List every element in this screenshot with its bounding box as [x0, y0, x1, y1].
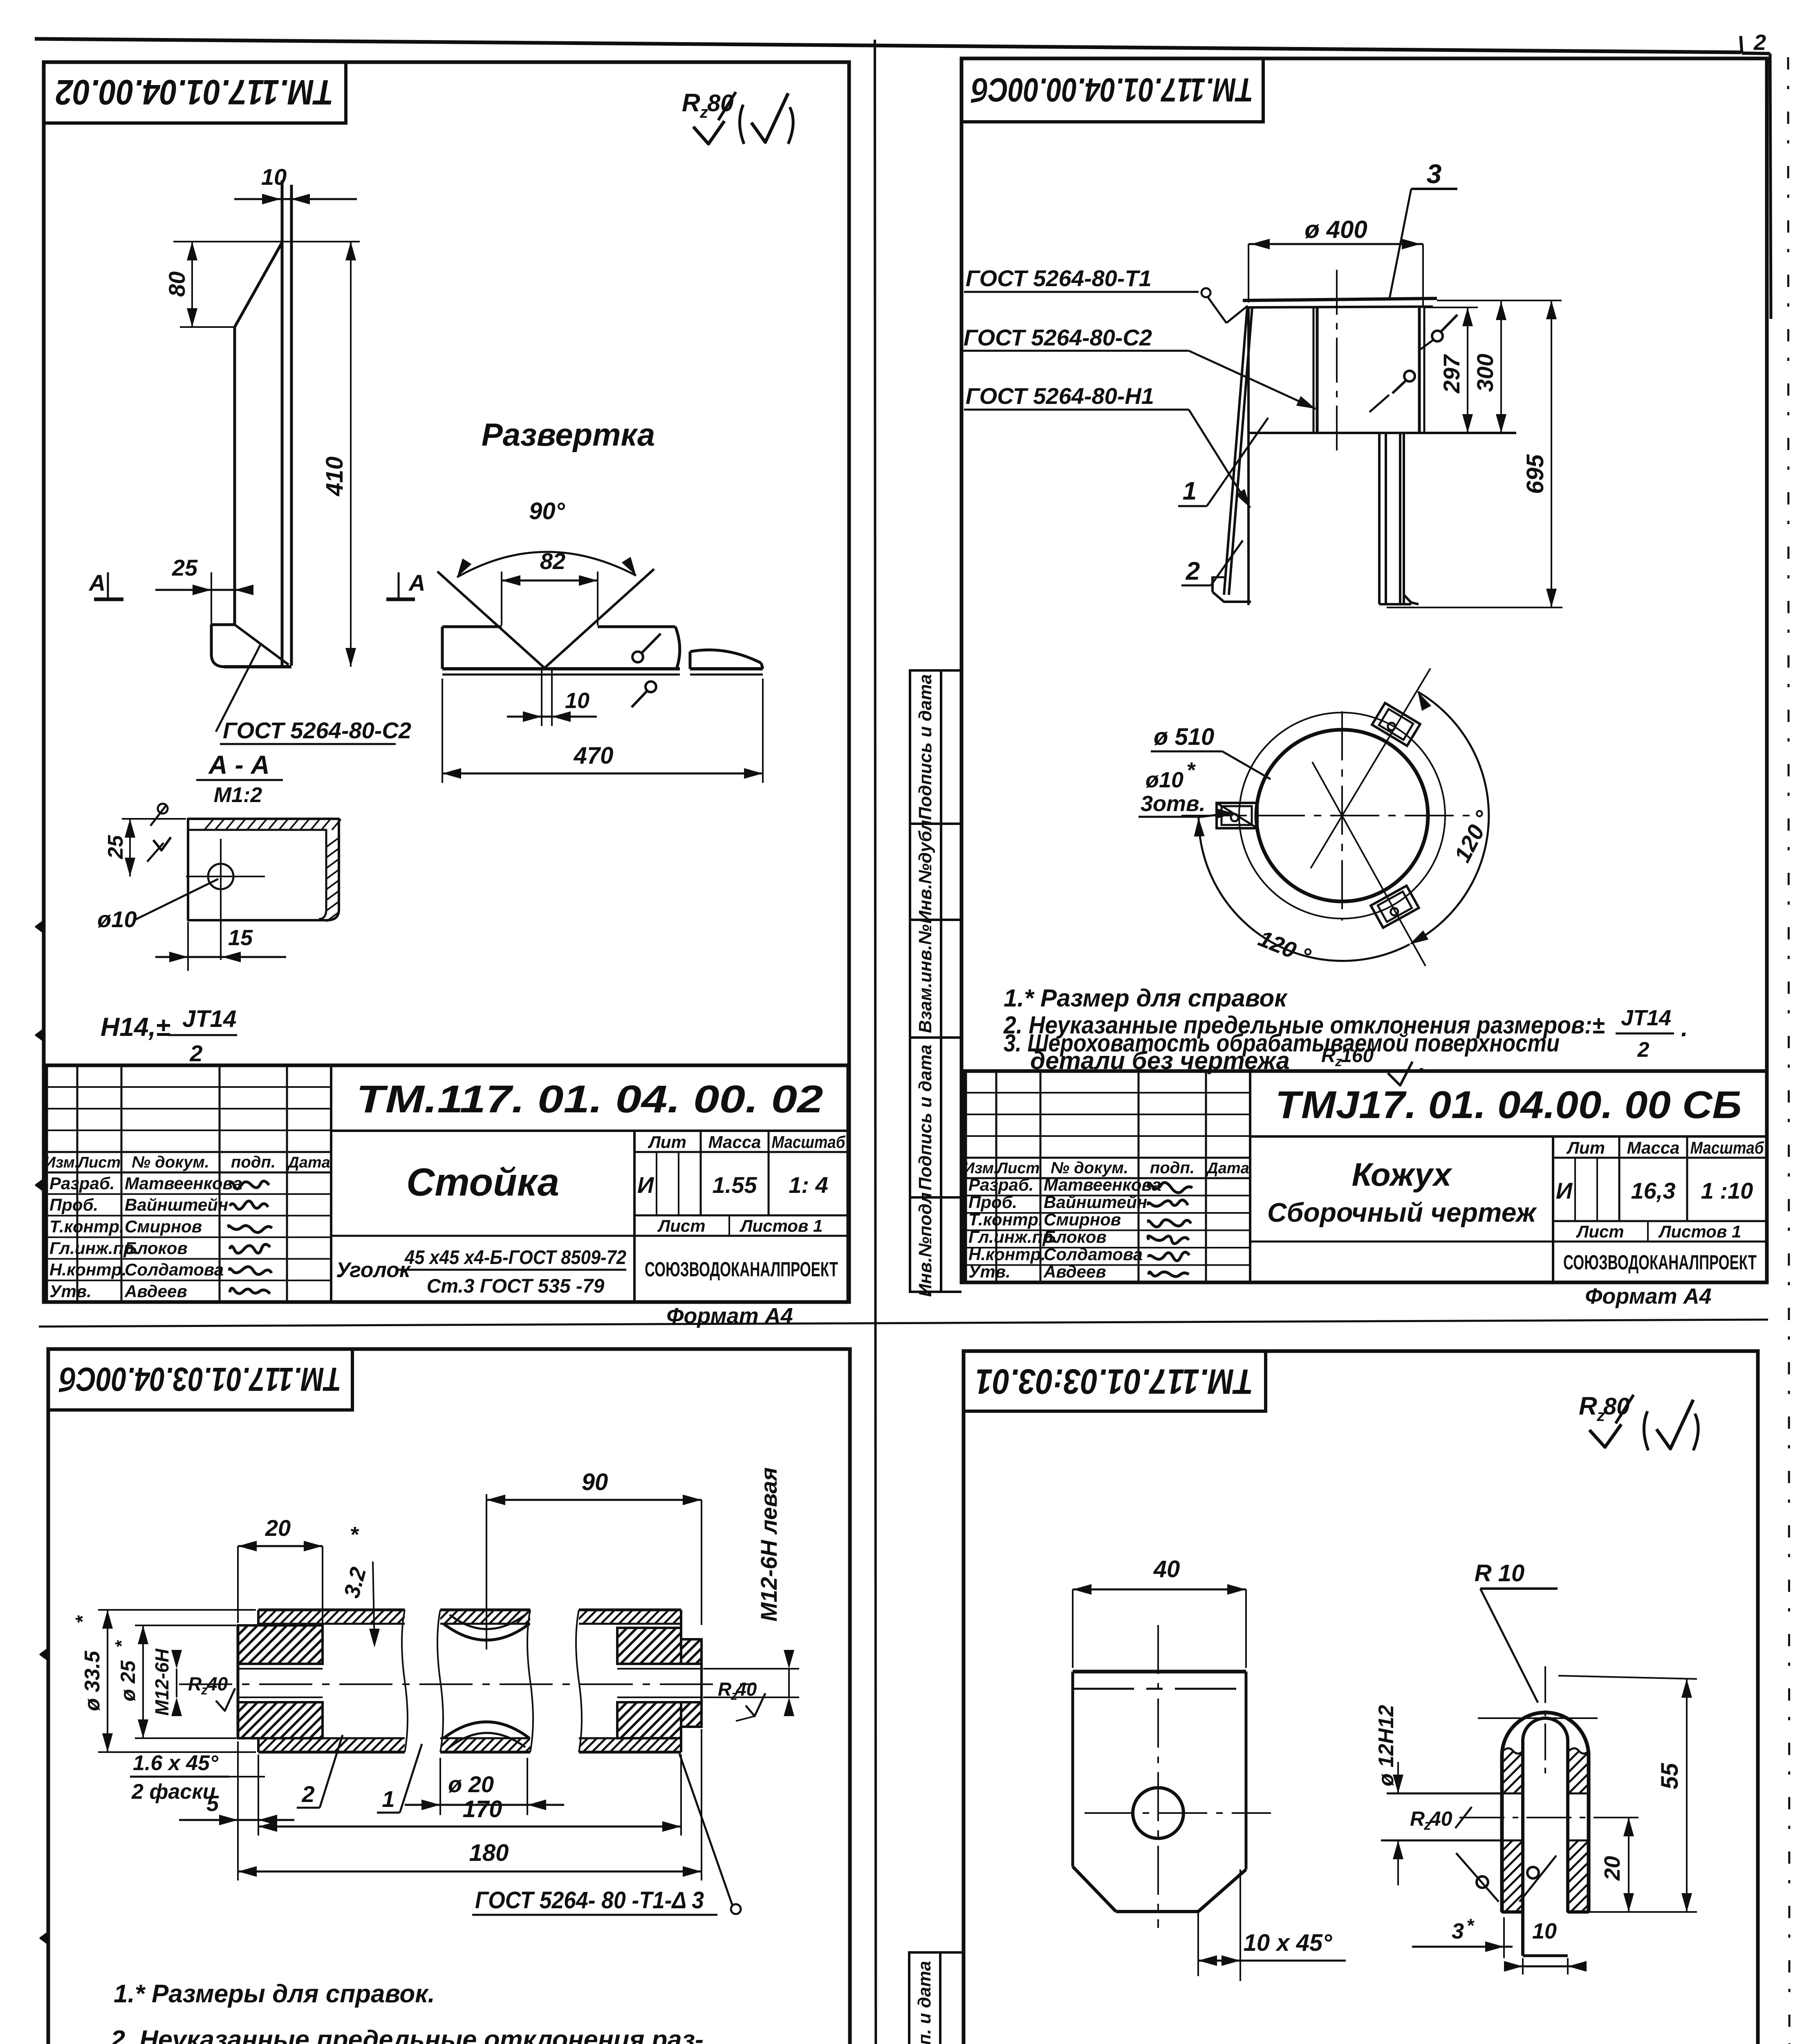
svg-text:Н.контр.: Н.контр. — [49, 1260, 127, 1279]
page number box tick — [1741, 36, 1742, 54]
svg-text:ø 12Н12: ø 12Н12 — [1374, 1705, 1398, 1786]
svg-text:Утв.: Утв. — [968, 1262, 1011, 1281]
svg-text:ТМ.117.01.04.00.02: ТМ.117.01.04.00.02 — [56, 72, 334, 112]
BL right bushing upper block — [617, 1628, 681, 1664]
BL waist center vertical line — [486, 1494, 487, 1650]
TL section A-A right band hatch — [326, 838, 338, 847]
svg-text:СОЮЗВОДОКАНАЛПРОЕКТ: СОЮЗВОДОКАНАЛПРОЕКТ — [645, 1258, 838, 1281]
svg-text:Формат А4: Формат А4 — [666, 1304, 793, 1328]
TR right leg lines — [1378, 433, 1381, 604]
svg-text:Блоков: Блоков — [1044, 1227, 1107, 1246]
TR dim arc 120 bottom — [1199, 818, 1410, 961]
BR fork hatch upper right — [1568, 1748, 1589, 1793]
svg-text:55: 55 — [1656, 1763, 1683, 1789]
svg-text:10 х 45°: 10 х 45° — [1244, 1930, 1333, 1956]
svg-text:3: 3 — [1427, 159, 1442, 189]
title block TR outer frame — [965, 1071, 1767, 1282]
svg-text:Смирнов: Смирнов — [125, 1217, 202, 1236]
svg-text:Солдатова: Солдатова — [125, 1260, 224, 1279]
BR bracketed check mark — [1644, 1411, 1648, 1450]
svg-text:Вайнштейн: Вайнштейн — [125, 1195, 228, 1215]
stamp box BL inverted doc number — [48, 1349, 352, 1410]
svg-text:ГОСТ 5264- 80 -Т1-Δ 3: ГОСТ 5264- 80 -Т1-Δ 3 — [475, 1887, 704, 1914]
sheet top edge right segment — [1742, 53, 1770, 54]
TL razvertka weld symbol lower — [646, 681, 656, 692]
TR left leg front edge vertical — [1247, 307, 1250, 605]
TL razvertka V notch lines — [437, 572, 545, 668]
svg-text:ø 510: ø 510 — [1154, 724, 1214, 750]
svg-text:Изм.: Изм. — [964, 1160, 998, 1177]
TR right leg foot — [1404, 595, 1419, 604]
svg-text:Авдеев: Авдеев — [124, 1282, 187, 1301]
svg-text:Инв.№дубл: Инв.№дубл — [915, 820, 935, 924]
TR circle outer thin — [1239, 713, 1445, 919]
TR lug top-right — [1372, 703, 1420, 746]
TR lug centerline upper right — [1311, 668, 1430, 868]
svg-text:2: 2 — [1753, 30, 1766, 55]
TR left bracket profile — [1224, 307, 1247, 595]
svg-text:Лист: Лист — [657, 1216, 705, 1235]
svg-text:ЈТ14: ЈТ14 — [1621, 1006, 1671, 1030]
svg-text:Подпись и дата: Подпись и дата — [915, 674, 935, 820]
TR cylinder right wall — [1418, 307, 1421, 433]
svg-text:ТМ.117.01.03:03.01: ТМ.117.01.03:03.01 — [975, 1362, 1253, 1401]
svg-text:82: 82 — [540, 548, 565, 574]
svg-text:*: * — [112, 1640, 132, 1648]
TR dim 300 — [1500, 301, 1502, 433]
BR fork outer U — [1502, 1712, 1589, 1912]
title block TL left column verticals — [76, 1065, 78, 1302]
svg-text:Формат А4: Формат А4 — [1585, 1284, 1711, 1309]
BL left frame tick marks — [40, 1649, 48, 1660]
TL razvertka right tab piece — [690, 650, 761, 663]
svg-text:Солдатова: Солдатова — [1044, 1245, 1143, 1264]
svg-text:1.* Размер для справок: 1.* Размер для справок — [1004, 984, 1288, 1012]
BL middle waist curves bottom — [444, 1722, 529, 1738]
TR center line vertical — [1336, 270, 1338, 452]
svg-text:Дата: Дата — [287, 1154, 330, 1171]
frame TL quadrant (Stoika) — [44, 62, 849, 1302]
svg-text:Листов 1: Листов 1 — [1658, 1222, 1742, 1241]
svg-text:410: 410 — [321, 457, 348, 497]
BR dim 20 — [1628, 1818, 1629, 1912]
BR plate bottom chamfers — [1073, 1867, 1116, 1912]
svg-text:40: 40 — [1429, 1807, 1452, 1830]
svg-text:2 фаски: 2 фаски — [131, 1780, 215, 1804]
svg-text:Проб.: Проб. — [49, 1195, 98, 1215]
svg-text:45 х45 х4-Б-ГОСТ 8509-72: 45 х45 х4-Б-ГОСТ 8509-72 — [404, 1247, 626, 1269]
svg-text:1.55: 1.55 — [713, 1172, 758, 1198]
svg-text:Лист: Лист — [1576, 1222, 1624, 1241]
TL dim 80 — [180, 326, 235, 328]
svg-text:Н.контр.: Н.контр. — [968, 1245, 1046, 1264]
title block TR lit-massa-masshtab header — [1553, 1157, 1767, 1159]
svg-text:Масса: Масса — [708, 1132, 761, 1152]
svg-text:ø10: ø10 — [1145, 768, 1183, 792]
TL section A-A top band hatch — [204, 819, 213, 830]
BL left bushing bore lines — [238, 1668, 323, 1670]
svg-text:25: 25 — [172, 555, 198, 580]
svg-text:1: 1 — [1183, 477, 1197, 505]
TR cylinder bottom line — [1248, 432, 1516, 434]
title block TR thin revision rows — [965, 1092, 1250, 1094]
TL section hole circle d10 — [208, 864, 233, 889]
BL right bushing lower block — [617, 1702, 681, 1738]
svg-text:Разраб.: Разраб. — [968, 1175, 1034, 1195]
title block TR material cell — [1250, 1241, 1553, 1243]
svg-text:Подпись и дата: Подпись и дата — [915, 1044, 935, 1190]
svg-text:подп.: подп. — [231, 1153, 276, 1171]
TL bracketed check mark — [740, 105, 744, 144]
svg-text:160: 160 — [1341, 1045, 1374, 1067]
center column divider line — [875, 40, 876, 2044]
svg-text:10: 10 — [565, 688, 589, 713]
TR left bracket foot — [1211, 576, 1214, 592]
svg-text:Масштаб: Масштаб — [1690, 1138, 1764, 1157]
TR weld symbol upper — [1432, 331, 1443, 341]
svg-text:ø 25: ø 25 — [117, 1660, 139, 1701]
BL dim phi33.5 — [98, 1609, 256, 1611]
TL stoika left edge — [233, 327, 236, 625]
svg-text:ø10: ø10 — [97, 906, 137, 932]
TL stoika profile top vertex and strip — [281, 180, 284, 666]
svg-text:R: R — [718, 1679, 731, 1700]
BR fork hatch lower right — [1568, 1840, 1589, 1912]
BL dim 20 left — [238, 1545, 323, 1547]
svg-text:R: R — [1410, 1807, 1425, 1830]
svg-text:ТМ.117. 01. 04. 00. 02: ТМ.117. 01. 04. 00. 02 — [356, 1078, 823, 1121]
svg-text:170: 170 — [463, 1796, 502, 1822]
svg-text:М1:2: М1:2 — [214, 783, 262, 807]
sheet top edge line — [35, 39, 1741, 52]
svg-text:R 10: R 10 — [1475, 1560, 1525, 1587]
svg-text:5: 5 — [206, 1791, 219, 1816]
svg-text:И: И — [1556, 1178, 1573, 1204]
BR hole centerline — [1459, 1817, 1644, 1818]
BR weld symbols bottom — [1477, 1876, 1488, 1888]
BL break wavy lines — [402, 1610, 408, 1752]
svg-text:16,3: 16,3 — [1631, 1178, 1676, 1204]
svg-text:подп.: подп. — [1150, 1159, 1195, 1177]
TR dim arc 120 right — [1411, 692, 1489, 944]
svg-text:Взам.инв.№: Взам.инв.№ — [915, 924, 935, 1033]
svg-text:ø 33.5: ø 33.5 — [81, 1650, 104, 1711]
svg-text:ø 20: ø 20 — [448, 1771, 494, 1797]
svg-text:ТМ.117.01.04.00.00Сб: ТМ.117.01.04.00.00Сб — [970, 71, 1253, 108]
svg-text:Кожух: Кожух — [1352, 1156, 1453, 1193]
svg-text:2: 2 — [189, 1040, 202, 1066]
svg-text:180: 180 — [469, 1840, 509, 1866]
BL tube right end verticals — [680, 1610, 682, 1628]
svg-text:80: 80 — [164, 271, 190, 297]
svg-text:Вайнштейн: Вайнштейн — [1044, 1192, 1147, 1212]
frame TR quadrant (Kozhukh) — [962, 58, 1767, 1282]
title block TR left column verticals — [995, 1071, 997, 1282]
svg-text:*: * — [1466, 1915, 1475, 1936]
TL section A-A inner thickness lines — [188, 830, 326, 919]
svg-text:ГОСТ 5264-80-С2: ГОСТ 5264-80-С2 — [223, 717, 411, 743]
BR fork hole boundary lines — [1381, 1840, 1523, 1842]
BL dim 90 — [486, 1499, 702, 1501]
svg-text:1: 4: 1: 4 — [789, 1172, 828, 1198]
svg-text:470: 470 — [574, 742, 614, 769]
TL razvertka dim 470 — [442, 679, 443, 783]
svg-text:Сборочный чертеж: Сборочный чертеж — [1267, 1197, 1538, 1228]
TL razvertka bar outline — [442, 625, 502, 628]
svg-text:40: 40 — [1153, 1556, 1180, 1582]
svg-text:Масштаб: Масштаб — [772, 1132, 846, 1152]
TR bottom circular view centerlines — [1181, 815, 1470, 816]
svg-text:Лист: Лист — [77, 1154, 121, 1171]
svg-text:Т.контр.: Т.контр. — [49, 1217, 124, 1236]
svg-text:ГОСТ 5264-80-Т1: ГОСТ 5264-80-Т1 — [966, 265, 1152, 291]
BL middle waist curves top — [444, 1624, 529, 1640]
frame BL quadrant (Mufta) — [48, 1349, 850, 2044]
title block TL outer frame — [46, 1065, 848, 1302]
svg-text:№ докум.: № докум. — [1051, 1159, 1128, 1177]
TL dim 15 — [187, 922, 189, 971]
svg-text:300: 300 — [1472, 354, 1498, 392]
svg-text:Смирнов: Смирнов — [1044, 1210, 1121, 1229]
svg-text:Изм.: Изм. — [45, 1154, 79, 1171]
BR dim 55 — [1558, 1676, 1697, 1679]
title block TR doc number cell — [1250, 1135, 1767, 1138]
svg-text:25: 25 — [104, 835, 128, 859]
svg-text:15: 15 — [228, 926, 253, 950]
svg-text:3: 3 — [1452, 1919, 1464, 1943]
svg-text:90: 90 — [582, 1469, 608, 1495]
svg-text:z: z — [699, 103, 708, 121]
TR circle inner thick — [1256, 730, 1428, 901]
title block TR lit values — [1574, 1158, 1576, 1221]
TL stoika foot — [211, 623, 235, 626]
TR dim 695 — [1437, 300, 1562, 301]
BL left bushing upper block — [238, 1625, 323, 1664]
svg-text:Утв.: Утв. — [49, 1282, 92, 1301]
TL dim 25 section — [122, 818, 186, 820]
svg-text:Лит: Лит — [1566, 1138, 1605, 1157]
BL dim M12-6H left — [176, 1669, 177, 1697]
svg-text:40: 40 — [206, 1673, 228, 1694]
svg-text:20: 20 — [1600, 1856, 1625, 1881]
title block TL doc/name cell divider — [330, 1065, 332, 1302]
svg-text:*: * — [350, 1522, 359, 1547]
BL dim phi25 — [135, 1625, 236, 1626]
svg-text:ø 400: ø 400 — [1304, 216, 1367, 243]
BL tube left end verticals — [257, 1610, 260, 1625]
svg-text:ГОСТ 5264-80-Н1: ГОСТ 5264-80-Н1 — [966, 383, 1154, 409]
TL leader to GOST 5264-80-C2 — [216, 645, 260, 732]
svg-text:Лист: Лист — [996, 1160, 1040, 1177]
TL stoika slanted top edge — [235, 242, 282, 327]
BL centerline horizontal — [179, 1683, 754, 1685]
svg-text:Блоков: Блоков — [125, 1238, 188, 1257]
svg-text:Проб.: Проб. — [968, 1192, 1017, 1212]
svg-text:R: R — [682, 89, 700, 117]
BL left bushing lower block — [238, 1702, 323, 1738]
BR fork inner slot — [1523, 1718, 1568, 1956]
frame BR quadrant (Vilka) — [964, 1351, 1758, 2044]
TR weld symbol lower — [1404, 371, 1415, 381]
svg-text:№ докум.: № докум. — [132, 1153, 209, 1171]
svg-text:1 :10: 1 :10 — [1701, 1178, 1753, 1204]
svg-text:2: 2 — [1186, 557, 1200, 585]
svg-text:Листов 1: Листов 1 — [740, 1216, 823, 1235]
BR plate outline — [1073, 1670, 1246, 1674]
svg-text:R: R — [188, 1673, 202, 1694]
svg-text:10: 10 — [1532, 1919, 1557, 1943]
TL left frame tick marks — [36, 921, 44, 932]
svg-text:А: А — [408, 570, 425, 596]
svg-text:695: 695 — [1522, 454, 1549, 494]
svg-text:А - А: А - А — [208, 750, 269, 780]
BR fork slot left wall lower extension — [1521, 1912, 1524, 1956]
svg-text:Ст.3 ГОСТ 535 -79: Ст.3 ГОСТ 535 -79 — [427, 1275, 605, 1297]
BR fork bottom edges — [1502, 1910, 1523, 1914]
title block TL doc number cell — [331, 1130, 848, 1132]
margin strip BR — [909, 1952, 940, 2044]
svg-text:2: 2 — [301, 1781, 314, 1807]
TL dim 410 — [350, 242, 352, 667]
middle row divider line — [39, 1320, 1768, 1327]
svg-text:40: 40 — [735, 1679, 757, 1700]
svg-text:А: А — [88, 570, 105, 596]
svg-text:297: 297 — [1439, 354, 1464, 393]
BL left end face — [237, 1625, 240, 1738]
svg-text:Авдеев: Авдеев — [1043, 1262, 1106, 1281]
TL dim 410 extension top — [173, 241, 360, 242]
title block TL header row lines — [46, 1151, 331, 1153]
title block TL material cell — [331, 1235, 634, 1237]
svg-text:1.6 х 45°: 1.6 х 45° — [133, 1751, 219, 1775]
svg-text:R: R — [1579, 1392, 1597, 1420]
BL dim 170 — [258, 1755, 259, 1836]
TL razvertka dim 82 — [502, 580, 598, 582]
TR dim 297 — [1467, 307, 1468, 433]
title block TL people rows — [46, 1193, 331, 1195]
title block TR list row — [1553, 1241, 1767, 1243]
svg-text:Разраб.: Разраб. — [49, 1174, 115, 1193]
TR lug bottom-right — [1371, 886, 1419, 928]
title block TR people rows — [965, 1195, 1250, 1197]
TL razvertka bar bottom double line — [442, 667, 680, 670]
BL dim 180 — [237, 1741, 239, 1880]
BL tube bottom band segments — [258, 1737, 405, 1739]
TR cylinder left wall — [1313, 307, 1315, 433]
svg-text:*: * — [72, 1615, 94, 1623]
svg-text:3отв.: 3отв. — [1141, 791, 1206, 816]
svg-text:1: 1 — [382, 1786, 394, 1812]
svg-text:Развертка: Развертка — [482, 417, 655, 453]
BL tube top band segments — [258, 1609, 405, 1611]
svg-text:Матвеенкова: Матвеенкова — [1044, 1175, 1161, 1195]
svg-text:Лит: Лит — [648, 1132, 686, 1152]
TL stoika foot weld diagonal — [235, 625, 289, 665]
BL right bushing bore lines — [617, 1668, 702, 1670]
TR flange top plate — [1243, 298, 1437, 300]
TL razvertka 90 deg arc — [457, 552, 636, 577]
BR fork centerlines — [1544, 1666, 1546, 1774]
title block TL lit-massa-masshtab header — [634, 1151, 848, 1153]
svg-text:1.* Размеры для справок.: 1.* Размеры для справок. — [114, 1980, 435, 2008]
svg-text:Н14,±: Н14,± — [101, 1012, 170, 1042]
title block TR header row lines — [965, 1157, 1250, 1159]
svg-text:*: * — [1186, 758, 1196, 782]
title block TL lit values — [656, 1152, 657, 1215]
BR plate hidden line — [1073, 1688, 1246, 1690]
BR plate hole — [1133, 1788, 1183, 1838]
TL section weld symbol — [158, 804, 168, 814]
title block TL thin revision rows — [46, 1086, 331, 1088]
svg-text:2. Неуказанные предельные о: 2. Неуказанные предельные отклонения раз… — [110, 2026, 704, 2044]
svg-text:ТМЈ17. 01. 04.00. 00 СБ: ТМЈ17. 01. 04.00. 00 СБ — [1275, 1083, 1742, 1127]
BR fork hatch upper left — [1502, 1748, 1523, 1793]
svg-text:90°: 90° — [529, 498, 565, 524]
svg-text:И: И — [637, 1172, 654, 1198]
svg-text:.: . — [1419, 1050, 1425, 1077]
stamp box TR inverted doc number — [962, 58, 1263, 122]
svg-text:.: . — [1681, 1014, 1688, 1042]
svg-text:Масса: Масса — [1627, 1138, 1680, 1157]
title block TL list row — [634, 1235, 848, 1237]
stamp box TL inverted doc number — [44, 62, 346, 123]
TL dim 25 — [155, 589, 245, 591]
svg-text:R: R — [1321, 1045, 1336, 1067]
svg-text:М12-6Н: М12-6Н — [151, 1648, 173, 1715]
TR lug left — [1217, 803, 1257, 828]
TL razvertka dim 10 below notch — [541, 669, 542, 726]
svg-text:20: 20 — [265, 1515, 291, 1541]
TL razvertka weld symbol upper — [632, 652, 643, 662]
title block TR doc/name cell divider — [1249, 1071, 1251, 1282]
BR fork hatch lower left — [1502, 1840, 1523, 1912]
svg-text:Т.контр.: Т.контр. — [968, 1210, 1043, 1229]
svg-text:Матвеенкова: Матвеенкова — [125, 1174, 242, 1193]
svg-text:2: 2 — [1637, 1038, 1650, 1062]
svg-text:СОЮЗВОДОКАНАЛПРОЕКТ: СОЮЗВОДОКАНАЛПРОЕКТ — [1563, 1251, 1757, 1274]
svg-text:подп. и дата: подп. и дата — [914, 1961, 935, 2044]
BR plate 10x45 dim — [1197, 1912, 1199, 1976]
TR lug centerline lower right — [1312, 762, 1425, 966]
margin strip TR — [910, 670, 941, 824]
right scan edge dashed line — [1788, 57, 1790, 2044]
stamp box BR inverted doc number — [964, 1351, 1266, 1411]
svg-text:М12-6Н левая: М12-6Н левая — [756, 1467, 782, 1621]
svg-text:Дата: Дата — [1206, 1160, 1249, 1177]
svg-text:Инв.№подл: Инв.№подл — [915, 1192, 935, 1297]
TL section A-A marks — [94, 598, 123, 601]
BR fork stem bottom — [1523, 1954, 1568, 1957]
svg-text:ЈТ14: ЈТ14 — [182, 1006, 236, 1032]
TL section A-A outline outer — [188, 819, 339, 920]
svg-text:ТМ.117.01.03.04.00Сб: ТМ.117.01.03.04.00Сб — [58, 1360, 341, 1398]
right sheet edge line — [1770, 54, 1771, 319]
svg-text:ГОСТ 5264-80-С2: ГОСТ 5264-80-С2 — [964, 325, 1152, 350]
svg-text:Стойка: Стойка — [406, 1161, 559, 1204]
